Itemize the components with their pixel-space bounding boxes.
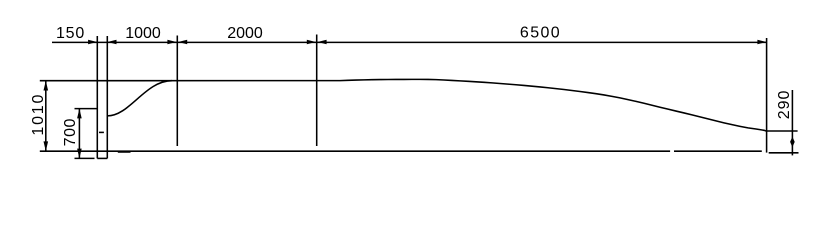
svg-text:290: 290: [776, 90, 793, 120]
svg-text:1010: 1010: [30, 93, 47, 136]
svg-text:6500: 6500: [520, 24, 561, 41]
svg-text:150: 150: [56, 25, 85, 42]
svg-text:2000: 2000: [227, 25, 263, 42]
svg-text:700: 700: [62, 118, 79, 146]
svg-text:1000: 1000: [125, 25, 161, 42]
